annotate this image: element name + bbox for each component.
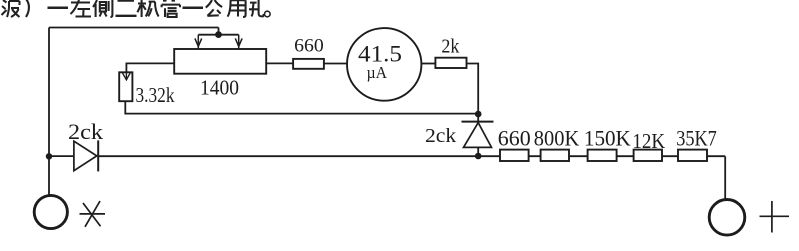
wire: diode anode stub to bottom rail — [477, 147, 479, 156]
caption text (cut-off Chinese line) — [2, 0, 271, 17]
svg-text:2k: 2k — [441, 36, 459, 58]
wire: main bottom rail — [98, 155, 725, 157]
resistor 660 (series chain) — [500, 150, 529, 161]
resistor 150K — [588, 150, 617, 161]
wiper arrow tip entering 3.32k — [122, 72, 130, 80]
resistor 800K — [541, 150, 569, 161]
terminal T1 (left, circle) — [34, 195, 67, 228]
svg-text:12K: 12K — [632, 129, 665, 153]
wire: wiper stub down to tap bar — [218, 28, 220, 35]
svg-text:1400: 1400 — [200, 75, 239, 99]
diode D2 2ck (vertical, cathode bar on top) — [462, 121, 494, 123]
wire: left vertical rail — [48, 28, 50, 196]
wire: 660 to meter — [324, 63, 347, 65]
resistor 3.32k (vertical, with wiper arrow tip) — [119, 72, 132, 101]
wire: 3.32k bottom stub and long horizontal to diode node — [125, 101, 478, 113]
wire: pot right lead to 660 — [266, 62, 293, 64]
wiper arrow left (points down onto pot) — [195, 35, 202, 49]
meter U1 41.5 uA — [347, 28, 421, 101]
resistor 12K — [634, 150, 662, 161]
node: junction dot on bottom rail under diode — [475, 153, 482, 160]
terminal T2 (right, circle) — [709, 200, 745, 236]
wire: meter to 2k — [421, 63, 435, 65]
wire: tap bar across both wiper arrows — [198, 34, 238, 36]
plus marker at right terminal — [760, 201, 790, 233]
node: wiper junction dot — [215, 31, 222, 38]
potentiometer RP 1400 body — [174, 49, 266, 74]
svg-text:150K: 150K — [584, 126, 631, 151]
svg-text:800K: 800K — [534, 126, 580, 151]
resistor 2k — [435, 58, 466, 68]
wire: left rail to diode D1 — [49, 155, 74, 157]
svg-text:35K7: 35K7 — [676, 126, 717, 151]
wiper arrow right (points down onto pot) — [235, 35, 242, 49]
diode D1 2ck (points right) — [74, 141, 97, 171]
node: junction dot on left rail — [46, 153, 52, 159]
svg-text:2ck: 2ck — [68, 119, 103, 144]
resistor 660 (top) — [293, 59, 324, 69]
star marker at left terminal — [80, 201, 106, 227]
svg-text:µA: µA — [367, 63, 388, 82]
wire: pot left lead to 3.32k — [126, 63, 174, 72]
svg-text:660: 660 — [294, 36, 324, 57]
svg-text:3.32k: 3.32k — [136, 83, 175, 107]
svg-text:2ck: 2ck — [425, 125, 456, 147]
svg-text:660: 660 — [498, 126, 531, 151]
wire: top horizontal from left rail to wiper stub — [49, 27, 219, 29]
node: junction dot at 3.32k return / diode branch — [475, 111, 482, 118]
wire: down to right terminal — [724, 156, 726, 199]
resistor 35K7 — [678, 150, 707, 161]
wire: 2k right then down to diode branch — [467, 64, 479, 122]
